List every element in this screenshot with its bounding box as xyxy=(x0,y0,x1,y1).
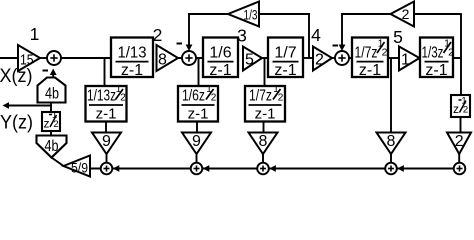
wire branch down to block M3 xyxy=(264,58,266,86)
wire M1 to gain 9a xyxy=(105,122,107,133)
minus sign at S2 upper input xyxy=(177,43,183,45)
block B1 1/13/(z-1) xyxy=(111,38,153,80)
block M1 (1/13)z^1/2 / (z-1) xyxy=(86,84,127,122)
delay box z^-1/2 left xyxy=(42,110,60,131)
svg-text:2: 2 xyxy=(120,93,126,104)
gain triangle 8 xyxy=(157,45,179,71)
arrowhead into S5 xyxy=(203,165,210,172)
summer S2 xyxy=(182,51,196,65)
summer S1 xyxy=(47,51,61,65)
label 1 (stage 1) xyxy=(30,24,40,44)
arrowhead into S6 xyxy=(269,165,276,172)
wire gain 2 to summer S3 xyxy=(332,57,336,59)
gain triangle 8a (down) xyxy=(249,133,278,155)
node Y(z) label xyxy=(0,113,33,134)
wire feedback loop B down into S3 with arrowhead xyxy=(339,14,346,51)
wire M2 to gain 9b xyxy=(196,122,198,133)
svg-text:2: 2 xyxy=(463,105,468,116)
svg-text:8: 8 xyxy=(387,133,396,150)
svg-text:4: 4 xyxy=(311,25,321,45)
block B5 (1/3)z^1/2 / (z-1) xyxy=(420,38,454,80)
svg-text:2: 2 xyxy=(448,47,454,59)
svg-text:9: 9 xyxy=(102,133,111,150)
svg-text:8: 8 xyxy=(158,51,167,68)
summer S6 xyxy=(257,163,269,175)
minus sign at S1 lower input xyxy=(43,70,49,72)
svg-text:z-1: z-1 xyxy=(209,62,231,79)
svg-text:8: 8 xyxy=(259,133,268,150)
wire feedback loop B top run xyxy=(341,13,462,15)
gain triangle 9a (down) xyxy=(92,133,121,155)
svg-text:X(z): X(z) xyxy=(0,66,33,87)
svg-text:2: 2 xyxy=(53,119,58,130)
wire quantizer P1 up into S1 with arrowhead xyxy=(50,69,57,78)
svg-text:Y(z): Y(z) xyxy=(0,113,33,134)
wire branch down to gain 8b xyxy=(390,58,392,133)
wire P1 down to delay left xyxy=(50,103,52,113)
wire gain 5/9 tip to quantizer P2 vertex xyxy=(52,158,64,167)
quantizer P2 4b (lower) xyxy=(37,136,67,158)
wire branch down to block M2 xyxy=(198,58,200,86)
svg-text:2: 2 xyxy=(153,25,163,45)
wire gain 1 to block B5 xyxy=(419,57,422,59)
svg-text:2: 2 xyxy=(382,47,388,59)
wire gain 8b to summer S7 xyxy=(390,154,392,163)
wire feedback loop A down into S2 with arrowhead xyxy=(186,14,193,51)
svg-text:2: 2 xyxy=(315,51,324,68)
wire gain 15 to summer S1 xyxy=(40,57,47,59)
summer S4 xyxy=(101,163,113,175)
svg-text:9: 9 xyxy=(192,133,201,150)
svg-text:1: 1 xyxy=(30,24,40,44)
summer S8 xyxy=(454,163,466,175)
minus sign at S3 upper input xyxy=(333,45,339,47)
wire gain 9a to summer S4 xyxy=(106,154,108,163)
svg-text:5: 5 xyxy=(393,27,403,47)
svg-text:1: 1 xyxy=(401,51,410,68)
block M3 (1/7)z^1/2 / (z-1) xyxy=(245,84,285,122)
wire branch down to block M1 xyxy=(104,58,106,86)
svg-text:z: z xyxy=(453,102,459,116)
gain triangle 15 xyxy=(18,45,40,71)
svg-text:z-1: z-1 xyxy=(121,62,143,79)
block B4 (1/7)z^1/2 / (z-1) xyxy=(352,38,388,80)
svg-text:z-1: z-1 xyxy=(255,105,276,122)
wire gain 9b to summer S5 xyxy=(196,154,198,163)
block M2 (1/6)z^1/2 / (z-1) xyxy=(178,84,218,122)
wire input to gain 15 xyxy=(0,57,19,59)
wire S2 to block B2 xyxy=(196,57,203,59)
delay box z^-1/2 right xyxy=(451,95,470,117)
svg-text:z-1: z-1 xyxy=(425,62,447,79)
quantizer P1 4b (upper) xyxy=(38,78,66,103)
svg-text:4b: 4b xyxy=(45,138,59,155)
svg-text:1/7: 1/7 xyxy=(274,45,296,62)
wire gain 8 to summer S2 xyxy=(178,57,182,59)
wire gain 2c to summer S8 xyxy=(458,154,460,163)
svg-text:1/3z: 1/3z xyxy=(422,45,444,62)
wire feedback loop A right riser xyxy=(308,14,310,58)
svg-text:2: 2 xyxy=(211,93,217,104)
gain triangle 8b (down) xyxy=(377,133,406,155)
gain triangle 1/3 in loop A xyxy=(228,2,259,27)
summer S3 xyxy=(335,51,349,65)
svg-text:1/6: 1/6 xyxy=(209,45,231,62)
summer S5 xyxy=(191,163,203,175)
svg-text:1/3: 1/3 xyxy=(244,8,258,23)
svg-text:5: 5 xyxy=(245,52,254,69)
gain triangle 5/9 (left) xyxy=(64,156,91,177)
svg-text:z-1: z-1 xyxy=(274,62,296,79)
svg-text:2: 2 xyxy=(455,133,464,150)
wire gain 5 to block B3 xyxy=(262,57,268,59)
wire B4 to gain 1 xyxy=(388,57,399,59)
svg-text:1/7z: 1/7z xyxy=(249,88,272,105)
svg-text:15: 15 xyxy=(20,51,34,68)
svg-text:z: z xyxy=(44,117,50,131)
wire bottom feedback run xyxy=(90,168,460,170)
block B2 1/6/(z-1) xyxy=(203,38,238,80)
svg-text:1/13: 1/13 xyxy=(118,45,147,62)
svg-text:3: 3 xyxy=(237,26,247,46)
node X(z) input label xyxy=(0,66,33,87)
node Y(z) output wire with arrowhead xyxy=(3,102,52,109)
svg-text:z-1: z-1 xyxy=(359,62,381,79)
svg-text:2: 2 xyxy=(278,93,284,104)
svg-text:4b: 4b xyxy=(45,86,59,103)
svg-text:z-1: z-1 xyxy=(96,105,117,122)
wire B5 output to right riser xyxy=(453,57,462,59)
label 2 (stage 2) xyxy=(153,25,163,45)
svg-text:1/6z: 1/6z xyxy=(182,88,205,105)
svg-text:5/9: 5/9 xyxy=(71,161,88,176)
wire gain 8a to summer S6 xyxy=(262,154,264,163)
gain triangle 1 xyxy=(399,47,420,71)
summer S7 xyxy=(385,163,397,175)
svg-text:2: 2 xyxy=(402,6,410,22)
label 5 (stage 5) xyxy=(393,27,403,47)
arrowhead into S4 xyxy=(113,165,120,172)
block B3 1/7/(z-1) xyxy=(268,38,303,80)
label 3 (stage 3) xyxy=(237,26,247,46)
gain triangle 2 in loop B xyxy=(391,2,415,27)
gain triangle 2 xyxy=(313,47,332,71)
svg-text:1/13z: 1/13z xyxy=(87,88,116,105)
label 4 (stage 4) xyxy=(311,25,321,45)
wire right riser (loop B up, down to delay) xyxy=(460,14,462,95)
wire S1 to block B1 xyxy=(61,57,111,59)
wire M3 to gain 8a xyxy=(263,122,265,133)
svg-text:1/7z: 1/7z xyxy=(355,45,378,62)
wire delay left to P2 xyxy=(50,131,52,136)
wire feedback loop A top run xyxy=(188,13,310,15)
gain triangle 9b (down) xyxy=(182,133,211,155)
gain triangle 2c (down) xyxy=(447,133,471,155)
wire delay right to gain 2c xyxy=(460,117,462,133)
gain triangle 5 xyxy=(243,47,262,71)
arrowhead into S7 xyxy=(397,165,404,172)
svg-text:z-1: z-1 xyxy=(188,105,209,122)
wire S3 to block B4 xyxy=(349,57,352,59)
wire B3 to gain 2 xyxy=(303,57,313,59)
